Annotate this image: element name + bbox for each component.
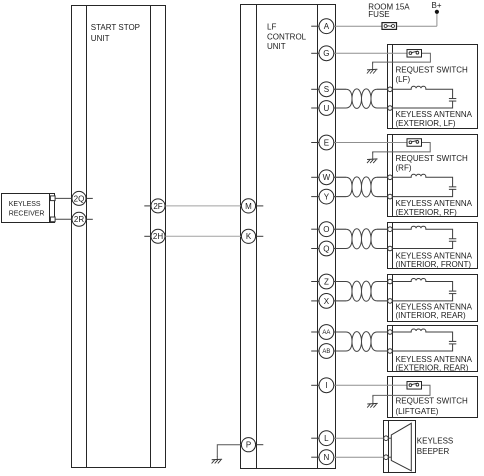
wire Y to antenna EXTERIOR RF [333,196,346,198]
wire twist to terminal top EXTERIOR REAR [377,331,388,333]
unit box: KEYLESS RECEIVER [2,194,55,223]
terminal U [311,101,334,116]
wire twist to terminal top EXTERIOR LF [377,88,388,90]
wire U to antenna EXTERIOR LF [333,107,346,109]
wire AA to antenna EXTERIOR REAR [333,331,346,333]
svg-text:(LF): (LF) [396,75,411,84]
svg-text:L: L [324,434,329,443]
connector terminal INTERIOR FRONT top [388,227,393,232]
svg-text:M: M [245,202,252,211]
connector terminal EXTERIOR LF bottom [388,106,393,111]
label REQUEST SWITCH (RF) [396,154,469,173]
terminal Q [311,241,334,256]
terminal O [311,222,334,237]
svg-text:2F: 2F [153,202,162,211]
wire N to beeper [333,456,384,458]
wire AB to antenna EXTERIOR REAR [333,350,346,352]
terminal AB [311,344,334,359]
switch symbol REQUEST SWITCH (LF) [407,50,422,58]
wire W to antenna EXTERIOR RF [333,176,346,178]
terminal M [241,199,263,213]
wire 2F to M [165,205,242,207]
label KEYLESS ANTENNA (EXTERIOR, REAR) [396,355,473,373]
wire twist to terminal bottom EXTERIOR LF [377,107,388,109]
terminal L [311,431,334,446]
connector terminal EXTERIOR LF top [388,87,393,92]
wire S to antenna EXTERIOR LF [333,88,346,90]
svg-text:RECEIVER: RECEIVER [9,210,45,217]
svg-text:LF: LF [267,23,276,32]
connector terminal beeper top [384,436,389,441]
wire switch LF to ground [373,53,431,64]
inductor coil EXTERIOR RF [393,174,453,187]
svg-text:2Q: 2Q [74,194,85,203]
svg-text:Z: Z [324,277,329,286]
svg-text:UNIT: UNIT [91,34,110,43]
svg-text:E: E [324,138,329,147]
receiver pin square bottom [50,217,55,222]
terminal 2H [144,229,165,243]
connector terminal EXTERIOR RF top [388,175,393,180]
twisted pair wires EXTERIOR REAR [333,332,388,352]
terminal P [241,438,263,452]
connector terminal EXTERIOR REAR top [388,330,393,335]
connector terminal INTERIOR REAR bottom [388,299,393,304]
wire twist to terminal top INTERIOR FRONT [377,228,388,230]
terminal E [311,135,334,150]
twisted pair wires INTERIOR FRONT [333,229,388,249]
twisted pair wires EXTERIOR LF [333,89,388,109]
wire switch RF to ground [373,143,431,154]
terminal Z [311,274,334,289]
label REQUEST SWITCH (LIFTGATE) [396,397,469,416]
wire X to antenna INTERIOR REAR [333,300,346,302]
svg-text:AA: AA [322,330,330,336]
wire L to beeper [333,437,384,439]
label REQUEST SWITCH (LF) [396,66,469,85]
ground for request switch (RF) [367,152,378,163]
svg-text:G: G [323,49,329,58]
wire antenna loop bottom INTERIOR REAR [393,294,453,301]
component box: REQUEST SWITCH (RF) / KEYLESS ANTENNA (EXTERIOR, RF) [388,135,478,217]
svg-text:KEYLESS ANTENNA: KEYLESS ANTENNA [396,303,473,312]
terminal I [311,378,334,393]
unit box: LF CONTROL UNIT [241,5,336,469]
svg-text:2H: 2H [153,232,163,241]
svg-text:REQUEST SWITCH: REQUEST SWITCH [396,397,469,406]
wire antenna loop bottom EXTERIOR REAR [393,344,453,351]
inductor coil INTERIOR FRONT [393,226,453,239]
svg-text:X: X [324,297,330,306]
svg-text:KEYLESS: KEYLESS [9,201,41,208]
terminal 2Q [72,191,93,205]
svg-text:N: N [324,453,330,462]
twisted pair wires INTERIOR REAR [333,281,388,301]
svg-text:(INTERIOR, REAR): (INTERIOR, REAR) [396,311,467,320]
wire 2H to K [165,235,242,237]
label ROOM 15A FUSE [368,2,410,19]
switch symbol REQUEST SWITCH (RF) [407,139,422,147]
wire I to request switch LIFTGATE [333,384,407,386]
wire antenna loop bottom EXTERIOR RF [393,189,453,196]
svg-text:(INTERIOR, FRONT): (INTERIOR, FRONT) [396,260,472,269]
svg-text:K: K [246,232,252,241]
wire P to ground [217,445,241,457]
wire twist to terminal bottom INTERIOR FRONT [377,248,388,250]
svg-text:KEYLESS ANTENNA: KEYLESS ANTENNA [396,110,473,119]
fuse ROOM 15A [382,23,397,30]
capacitor EXTERIOR REAR [449,341,456,344]
svg-text:(RF): (RF) [396,164,412,173]
svg-text:(LIFTGATE): (LIFTGATE) [396,407,439,416]
label KEYLESS BEEPER [417,436,453,456]
svg-text:I: I [325,381,327,390]
terminal X [311,294,334,309]
terminal G [311,46,334,61]
svg-text:CONTROL: CONTROL [267,32,307,41]
svg-text:B+: B+ [431,1,441,10]
svg-text:AB: AB [322,349,330,355]
inductor coil EXTERIOR LF [393,86,453,98]
component box: REQUEST SWITCH (LF) / KEYLESS ANTENNA (EXTERIOR, LF) [388,45,478,129]
label KEYLESS ANTENNA (EXTERIOR, RF) [396,199,473,217]
svg-text:S: S [324,85,329,94]
connector terminal EXTERIOR REAR bottom [388,349,393,354]
svg-text:REQUEST SWITCH: REQUEST SWITCH [396,66,469,75]
wire antenna loop bottom INTERIOR FRONT [393,241,453,248]
wire twist to terminal bottom INTERIOR REAR [377,300,388,302]
twisted pair wires EXTERIOR RF [333,177,388,197]
connector terminal INTERIOR FRONT bottom [388,246,393,251]
wire A to fuse to B+ [333,13,437,26]
wire E to request switch RF [333,142,407,144]
inductor coil EXTERIOR REAR [393,329,453,341]
speaker KEYLESS BEEPER [389,423,412,471]
wire twist to terminal bottom EXTERIOR REAR [377,350,388,352]
capacitor EXTERIOR LF [449,99,456,102]
svg-text:P: P [246,441,251,450]
label KEYLESS ANTENNA (INTERIOR, FRONT) [396,252,473,270]
wire O to antenna INTERIOR FRONT [333,228,346,230]
terminal W [311,170,334,185]
wire receiver to 2Q [55,197,72,199]
terminal N [311,450,334,465]
terminal 2F [144,199,165,213]
connector terminal INTERIOR REAR top [388,279,393,284]
svg-text:REQUEST SWITCH: REQUEST SWITCH [396,154,469,163]
capacitor EXTERIOR RF [449,187,456,190]
terminal AA [311,325,334,340]
receiver pin square top [50,196,55,201]
wire Q to antenna INTERIOR FRONT [333,248,346,250]
unit box: START STOP UNIT [72,6,166,468]
component box: KEYLESS ANTENNA (EXTERIOR, REAR) [388,326,478,372]
capacitor INTERIOR REAR [449,291,456,294]
svg-text:Q: Q [323,244,329,253]
ground for request switch (LIFTGATE) [367,395,378,407]
terminal 2R [72,212,93,226]
svg-text:A: A [324,22,330,31]
connector terminal EXTERIOR RF bottom [388,194,393,199]
capacitor INTERIOR FRONT [449,239,456,242]
wire antenna loop bottom EXTERIOR LF [393,101,453,108]
svg-text:U: U [324,104,330,113]
ground for request switch (LF) [367,62,378,73]
switch symbol REQUEST SWITCH (LIFTGATE) [407,382,422,390]
component box: KEYLESS ANTENNA (INTERIOR, REAR) [388,275,478,322]
svg-text:(EXTERIOR, REAR): (EXTERIOR, REAR) [396,364,469,373]
svg-text:O: O [323,225,329,234]
connector terminal beeper bottom [384,455,389,460]
svg-text:KEYLESS ANTENNA: KEYLESS ANTENNA [396,199,473,208]
svg-text:(EXTERIOR, RF): (EXTERIOR, RF) [396,208,458,217]
wire Z to antenna INTERIOR REAR [333,281,346,283]
wire twist to terminal top INTERIOR REAR [377,281,388,283]
svg-text:Y: Y [324,193,330,202]
wire receiver to 2R [55,218,72,220]
component box: KEYLESS ANTENNA (INTERIOR, FRONT) [388,223,478,269]
wire G to request switch LF [333,52,407,54]
terminal Y [311,189,334,204]
svg-text:START STOP: START STOP [91,23,140,32]
node B+ [431,1,441,14]
label KEYLESS ANTENNA (INTERIOR, REAR) [396,303,473,321]
wire twist to terminal bottom EXTERIOR RF [377,196,388,198]
terminal A [311,19,334,34]
svg-text:UNIT: UNIT [267,42,286,51]
wire twist to terminal top EXTERIOR RF [377,176,388,178]
label KEYLESS ANTENNA (EXTERIOR, LF) [396,110,473,128]
svg-text:(EXTERIOR, LF): (EXTERIOR, LF) [396,119,456,128]
wire switch LIFTGATE to ground [373,385,430,397]
inductor coil INTERIOR REAR [393,278,453,291]
terminal S [311,82,334,97]
ground for P [212,456,223,463]
svg-text:W: W [323,173,331,182]
svg-text:KEYLESS: KEYLESS [417,436,453,445]
component box: KEYLESS BEEPER [384,421,416,473]
svg-text:BEEPER: BEEPER [417,447,450,456]
terminal K [241,229,263,243]
svg-text:2R: 2R [74,215,84,224]
svg-text:FUSE: FUSE [368,10,389,19]
component box: REQUEST SWITCH (LIFTGATE) [388,377,478,418]
